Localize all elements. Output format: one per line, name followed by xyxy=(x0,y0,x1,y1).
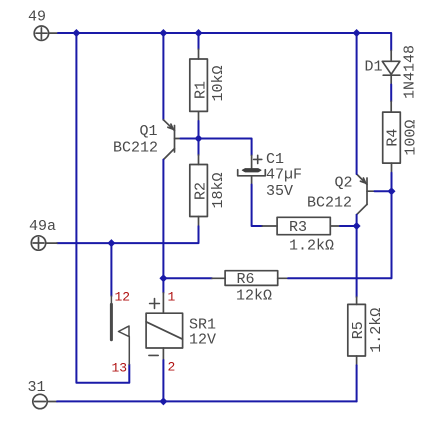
svg-text:10kΩ: 10kΩ xyxy=(210,65,227,101)
wire Q1 emitter from rail xyxy=(162,33,164,120)
svg-text:47µF: 47µF xyxy=(266,167,302,184)
svg-text:BC212: BC212 xyxy=(307,194,352,211)
minus sign SR1 xyxy=(149,354,158,356)
wire left branch down and to switch pin 13 xyxy=(76,33,129,383)
svg-text:12V: 12V xyxy=(189,332,216,349)
plus sign C1 xyxy=(254,155,262,163)
junction node base Q1 xyxy=(195,135,203,143)
wire R6 left lead xyxy=(163,277,212,279)
wire switch pin 12 xyxy=(110,243,112,296)
junction top rail x356 xyxy=(353,29,361,37)
svg-text:12kΩ: 12kΩ xyxy=(236,288,272,305)
svg-text:13: 13 xyxy=(112,361,128,376)
wire R5 bottom to rail xyxy=(356,365,358,401)
junction top rail x163 xyxy=(159,29,167,37)
svg-text:D1: D1 xyxy=(365,59,383,76)
wire top rail from 49 to D1 xyxy=(58,33,391,51)
svg-text:R3: R3 xyxy=(289,219,307,236)
svg-text:18kΩ: 18kΩ xyxy=(210,172,227,208)
svg-text:2: 2 xyxy=(168,360,176,375)
svg-text:1.2kΩ: 1.2kΩ xyxy=(289,238,334,255)
wire Q1 base to C1 top xyxy=(181,139,252,156)
junction R6 node xyxy=(159,274,167,282)
resistor R3 xyxy=(262,217,340,234)
wire R6 right to Q2 base node xyxy=(288,191,392,278)
svg-text:35V: 35V xyxy=(266,183,293,200)
wire Q2 collector down to R5 xyxy=(356,215,358,297)
svg-text:BC212: BC212 xyxy=(113,140,158,157)
plus sign SR1 xyxy=(150,299,160,309)
svg-text:49: 49 xyxy=(28,9,46,26)
diode D1 xyxy=(382,51,400,85)
wire C1 bottom to R3 xyxy=(252,185,263,227)
switch S contact pin 12 blade xyxy=(110,296,112,340)
junction switch node xyxy=(107,239,115,247)
svg-text:1: 1 xyxy=(168,290,176,305)
svg-text:1.2kΩ: 1.2kΩ xyxy=(368,308,385,353)
junction bottom rail xyxy=(159,397,167,405)
switch pin 13 lead xyxy=(128,337,130,365)
resistor R5 xyxy=(348,297,366,365)
wire R2 bottom to 49a xyxy=(57,226,199,243)
wire relay pin 2 to bottom rail xyxy=(162,360,164,401)
resistor R2 xyxy=(190,155,208,226)
svg-text:R1: R1 xyxy=(193,81,210,99)
wire R1 top xyxy=(198,33,200,49)
switch S fixed contact triangle xyxy=(119,326,130,337)
wire R4 bottom to base node xyxy=(391,173,393,191)
wire R3 right to collector node xyxy=(340,225,357,227)
junction Q2 base node xyxy=(388,187,396,195)
wire R1 bottom to base node xyxy=(198,121,200,155)
wire D1 to R4 xyxy=(390,85,392,102)
svg-text:Q2: Q2 xyxy=(335,175,353,192)
svg-text:R5: R5 xyxy=(350,321,367,339)
wire Q2 emitter from rail xyxy=(356,33,358,174)
svg-text:31: 31 xyxy=(28,379,46,396)
terminal 49 xyxy=(34,26,58,40)
terminal 49a xyxy=(31,236,57,250)
svg-text:R4: R4 xyxy=(385,129,402,147)
terminal 31 xyxy=(33,394,57,408)
junction top rail x76 xyxy=(72,29,80,37)
transistor Q1 xyxy=(163,120,180,160)
resistor R6 xyxy=(212,271,288,286)
wire Q1 collector down to relay pin 1 xyxy=(162,160,164,293)
svg-text:12: 12 xyxy=(115,290,131,305)
svg-text:C1: C1 xyxy=(266,151,284,168)
svg-text:R2: R2 xyxy=(193,182,210,200)
resistor R1 xyxy=(190,49,208,121)
junction top rail x198 xyxy=(195,29,203,37)
junction Q2 collector node xyxy=(353,222,361,230)
wire Q2 base lead xyxy=(375,190,392,192)
relay SR1 xyxy=(146,293,183,360)
transistor Q2 xyxy=(357,174,375,215)
svg-text:49a: 49a xyxy=(29,218,56,235)
svg-text:R6: R6 xyxy=(237,271,255,288)
wire bottom rail xyxy=(57,400,357,402)
svg-text:1N4148: 1N4148 xyxy=(402,45,419,99)
svg-text:100Ω: 100Ω xyxy=(403,120,420,156)
svg-text:Q1: Q1 xyxy=(140,123,158,140)
resistor R4 xyxy=(383,101,401,173)
capacitor C1 xyxy=(238,155,266,184)
